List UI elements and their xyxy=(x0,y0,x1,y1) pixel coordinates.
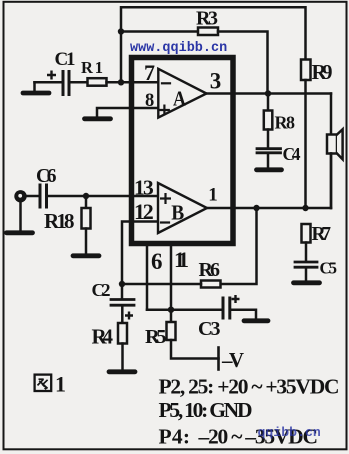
jack ground stub xyxy=(19,202,22,231)
svg-text:C1: C1 xyxy=(55,49,76,70)
wire pin 12 xyxy=(122,222,158,285)
resistor R3 xyxy=(198,28,218,36)
node pin11/R5 xyxy=(168,307,174,313)
node pin7/bus xyxy=(118,79,124,85)
resistor R1 xyxy=(88,78,107,86)
wire pins 6-11 to C3 xyxy=(147,308,222,311)
plus sign C1 xyxy=(47,71,240,320)
svg-text:A: A xyxy=(173,87,187,111)
figure label 图1 xyxy=(35,375,52,391)
-V terminal bar xyxy=(217,348,220,370)
node C6/R18 xyxy=(83,193,89,199)
resistor R6 xyxy=(201,281,221,288)
capacitor C1 xyxy=(62,72,65,95)
wire A output to speaker column xyxy=(207,92,332,95)
ground bar jack xyxy=(7,230,33,235)
svg-text:3: 3 xyxy=(210,69,222,94)
capacitor C3 xyxy=(222,298,225,318)
ground bar pin8 xyxy=(85,116,111,121)
svg-text:R9: R9 xyxy=(312,60,333,84)
svg-text:12: 12 xyxy=(134,199,154,224)
svg-text:R18: R18 xyxy=(44,209,75,233)
wire R5 to -V terminal xyxy=(171,340,219,359)
wire top feedback rail xyxy=(121,7,306,82)
svg-text:7: 7 xyxy=(144,60,155,85)
wire pin 6 xyxy=(146,245,149,310)
node B-out/R6 xyxy=(253,205,259,211)
svg-text:8: 8 xyxy=(145,91,154,111)
svg-text:B: B xyxy=(171,201,184,225)
ground (input A) xyxy=(33,82,36,91)
ground bar input A xyxy=(23,91,49,96)
ground bars xyxy=(7,93,320,372)
svg-text:C3: C3 xyxy=(198,318,221,340)
svg-text:R8: R8 xyxy=(275,113,296,133)
wire R8 to C4 xyxy=(267,130,270,148)
power rail text xyxy=(159,375,340,449)
wire R4 to ground xyxy=(121,344,124,370)
wire R1 to pin 7 xyxy=(107,81,159,84)
wire R3 to node A-out xyxy=(218,32,268,94)
capacitor C4 xyxy=(257,147,281,150)
wire C3 to ground xyxy=(232,310,257,319)
node R3/bus xyxy=(118,28,124,34)
resistor R7 xyxy=(302,224,311,243)
svg-text:R4: R4 xyxy=(92,325,114,349)
input jack wire xyxy=(26,195,39,198)
svg-text:R1: R1 xyxy=(81,58,103,77)
node pin12/C2 xyxy=(119,281,125,287)
resistor R9 xyxy=(301,60,311,81)
wire R6 to C2 node xyxy=(122,283,201,286)
svg-text:P5, 10: GND: P5, 10: GND xyxy=(159,398,253,422)
svg-text:C5: C5 xyxy=(320,259,338,278)
svg-text:R5: R5 xyxy=(145,326,167,348)
wire pin 11 xyxy=(170,245,173,310)
wire C2 to R4 xyxy=(121,307,124,324)
svg-text:R7: R7 xyxy=(312,224,332,245)
plus sign C2 xyxy=(125,312,133,320)
svg-text:R3: R3 xyxy=(196,8,218,30)
resistor R18 xyxy=(85,196,88,208)
svg-text:qqibb.cn: qqibb.cn xyxy=(258,425,321,440)
svg-text:C4: C4 xyxy=(283,144,301,164)
wire to C1 xyxy=(35,81,62,84)
resistor R8 xyxy=(267,94,270,111)
svg-text:13: 13 xyxy=(134,176,154,200)
plus sign C3 xyxy=(232,295,240,303)
pin number labels xyxy=(134,60,221,274)
wire C1 to R1 xyxy=(71,81,88,84)
wire R3 rail xyxy=(121,30,198,33)
capacitor C6 xyxy=(39,185,42,207)
ground bar C5 xyxy=(294,280,320,285)
svg-text:www.qqibb.cn: www.qqibb.cn xyxy=(130,41,227,56)
wire B output xyxy=(207,207,331,210)
resistor R5 xyxy=(170,310,173,322)
svg-text:C2: C2 xyxy=(92,280,111,300)
svg-text:1: 1 xyxy=(208,185,218,206)
ground (pin 8) xyxy=(97,108,158,117)
ground bar R18 xyxy=(73,253,99,258)
svg-text:C6: C6 xyxy=(36,166,57,187)
node B-out/R9/R7 xyxy=(302,205,308,211)
capacitor C5 xyxy=(295,261,317,264)
svg-text:6: 6 xyxy=(151,249,163,274)
svg-text:P4:: P4: xyxy=(159,425,191,449)
node A-out/R8 xyxy=(265,90,271,96)
IC box U1 xyxy=(132,58,234,244)
capacitor C2 xyxy=(121,284,124,298)
op-amp U1A xyxy=(158,69,206,118)
ground bar R4 xyxy=(109,369,135,374)
ground bar C4 xyxy=(257,167,282,172)
wire R6 loop from B output xyxy=(221,208,257,284)
svg-text:11: 11 xyxy=(174,247,189,272)
speaker LS xyxy=(327,135,337,154)
svg-text:1: 1 xyxy=(55,372,66,397)
svg-text:–V: –V xyxy=(221,348,244,372)
wire C6 to pin 13 xyxy=(48,195,158,198)
svg-text:P2, 25: +20 ~ +35VDC: P2, 25: +20 ~ +35VDC xyxy=(159,375,340,399)
ground bar C3 xyxy=(244,318,268,323)
wire R7 to C5 xyxy=(305,243,308,261)
resistor R4 xyxy=(118,323,127,344)
op-amp U1B xyxy=(158,183,207,233)
svg-text:R6: R6 xyxy=(199,259,221,281)
wire R9 bottom to node B-out xyxy=(304,80,307,208)
input jack xyxy=(14,190,26,202)
